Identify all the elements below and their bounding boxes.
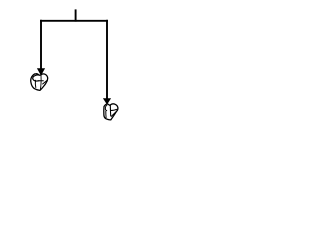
arrowhead: left arrow bbox=[37, 68, 45, 75]
wire: left vertical drop bbox=[40, 20, 42, 69]
rock icon: left bbox=[31, 74, 48, 91]
wire: top stub bbox=[75, 9, 77, 21]
wire: horizontal bar bbox=[40, 20, 108, 22]
arrowhead: right arrow bbox=[103, 98, 111, 104]
wire: right vertical drop bbox=[106, 20, 108, 99]
rock icon: right bbox=[104, 104, 118, 120]
